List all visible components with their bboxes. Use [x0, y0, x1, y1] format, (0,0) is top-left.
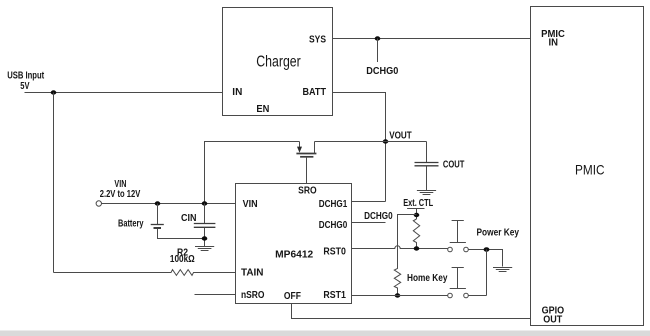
Q1 arrow [297, 147, 302, 153]
wire pass-FET drain to COUT corner [315, 141, 427, 143]
svg-text:VIN: VIN [243, 199, 258, 210]
junction DCHG0 tap on SYS line [375, 36, 381, 40]
wire home key to power key column [468, 295, 486, 297]
junction USB node [51, 90, 57, 94]
svg-text:2.2V to 12V: 2.2V to 12V [100, 189, 141, 200]
S1 contact right [464, 247, 469, 252]
svg-text:DCHG0: DCHG0 [364, 211, 393, 222]
transistor Q1 pass FET [296, 142, 316, 184]
capacitor COUT [415, 142, 439, 191]
wire down to COUT [426, 142, 428, 163]
svg-text:nSRO: nSRO [241, 290, 265, 301]
pin GPIO OUT label [542, 305, 564, 317]
wire CIN top lead [204, 204, 206, 224]
wire COUT to ground [426, 166, 428, 190]
svg-text:Ext. CTL: Ext. CTL [403, 198, 433, 209]
wire VIN rail up to pass-FET source [205, 142, 300, 204]
wire RST0 with hop [352, 246, 448, 249]
battery B1 [151, 204, 205, 239]
Q1 drain stub [314, 142, 316, 154]
battery plus plate [151, 224, 164, 226]
wire battery bottom lead [158, 229, 205, 239]
wire charger BATT right then down to VOUT [333, 93, 386, 202]
switch S2 Home Key [448, 268, 469, 298]
bottom gray band [0, 331, 650, 336]
junction power key node [484, 247, 490, 252]
wire power key to ground corner [468, 250, 502, 267]
terminal Ext CTL bar [407, 208, 424, 210]
ground CIN [195, 247, 214, 251]
junction R4 bottom on RST1 [395, 293, 401, 297]
wire Ext CTL stub [416, 209, 418, 220]
S2 actuator bar [450, 288, 466, 290]
svg-text:RST1: RST1 [323, 290, 346, 301]
resistor R4 home-key pullup [394, 246, 400, 296]
COUT top plate [415, 162, 439, 164]
S1 contact left [448, 247, 453, 252]
wire RST1 [352, 295, 448, 297]
svg-text:DCHG0: DCHG0 [319, 220, 348, 231]
svg-text:BATT: BATT [303, 87, 327, 98]
svg-text:OFF: OFF [284, 291, 301, 302]
svg-text:TAIN: TAIN [241, 267, 264, 278]
S1 actuator bar [450, 242, 466, 244]
svg-text:Charger: Charger [256, 54, 301, 71]
wire USB node down to TAIN line [53, 93, 55, 273]
resistor R2 [54, 270, 236, 276]
svg-text:5V: 5V [20, 81, 29, 92]
terminal VIN input [96, 201, 101, 206]
svg-text:CIN: CIN [181, 213, 197, 224]
ground power key [493, 268, 512, 272]
wire nSRO stub [195, 294, 236, 296]
junction R3 bottom on RST0 [414, 246, 420, 250]
svg-text:RST0: RST0 [323, 246, 346, 257]
svg-text:Power Key: Power Key [477, 228, 520, 239]
wire OFF to PMIC GPIO [292, 304, 531, 319]
capacitor CIN [194, 204, 216, 247]
wire battery top lead [157, 204, 159, 225]
S2 contact left [448, 293, 453, 298]
svg-text:100kΩ: 100kΩ [170, 253, 195, 264]
junction battery tap [155, 201, 161, 205]
switch S1 Power Key [448, 221, 469, 252]
svg-text:VOUT: VOUT [389, 131, 412, 142]
wire DCHG0 stub [352, 222, 386, 224]
CIN bottom plate [194, 226, 216, 228]
svg-text:Battery: Battery [118, 218, 144, 229]
svg-text:USB Input: USB Input [7, 71, 45, 82]
wire Q1 gate to SRO [306, 158, 308, 184]
wire Ext CTL node to home-key pullup column [398, 215, 417, 247]
junction battery/CIN ground node [202, 236, 208, 240]
svg-text:DCHG0: DCHG0 [366, 66, 398, 77]
S2 contact right [464, 293, 469, 298]
COUT bottom plate [415, 165, 439, 167]
node VOUT junction dot [383, 139, 389, 143]
S2 T handle [452, 267, 464, 269]
wire USB input to charger IN [25, 92, 223, 94]
svg-text:IN: IN [232, 87, 242, 98]
junction Ext CTL node [414, 213, 420, 217]
wire VIN rail [102, 203, 236, 205]
wire charger SYS to PMIC IN [333, 38, 531, 40]
svg-text:SYS: SYS [309, 35, 326, 46]
label R2 100k [177, 247, 188, 258]
Q1 gate bar [300, 156, 313, 158]
resistor R3 ext ctl pullup [413, 219, 419, 249]
junction CIN tap [202, 201, 208, 205]
pin PMIC IN label [541, 29, 565, 40]
svg-text:COUT: COUT [443, 159, 465, 170]
svg-text:PMIC: PMIC [575, 163, 605, 178]
svg-text:EN: EN [256, 104, 269, 115]
svg-text:Home Key: Home Key [407, 273, 448, 284]
CIN top plate [194, 223, 216, 225]
svg-text:OUT: OUT [543, 314, 562, 326]
battery minus plate [154, 227, 162, 229]
MP6412 U1 box [236, 184, 352, 304]
charger U2 box [223, 8, 333, 116]
svg-text:DCHG1: DCHG1 [319, 199, 348, 210]
wire DCHG0 stub down [377, 39, 379, 63]
wire DCHG1 to VOUT column [352, 201, 386, 203]
Q1 channel bar [296, 153, 316, 155]
ground COUT [417, 191, 436, 195]
wire power key node down to RST1 [486, 250, 488, 296]
svg-text:MP6412: MP6412 [275, 250, 313, 261]
PMIC box [531, 7, 644, 326]
svg-text:SRO: SRO [298, 186, 317, 197]
svg-text:IN: IN [548, 37, 557, 48]
wire CIN bottom lead [204, 228, 206, 247]
Q1 source stub [299, 142, 301, 148]
S1 T handle [452, 220, 464, 222]
